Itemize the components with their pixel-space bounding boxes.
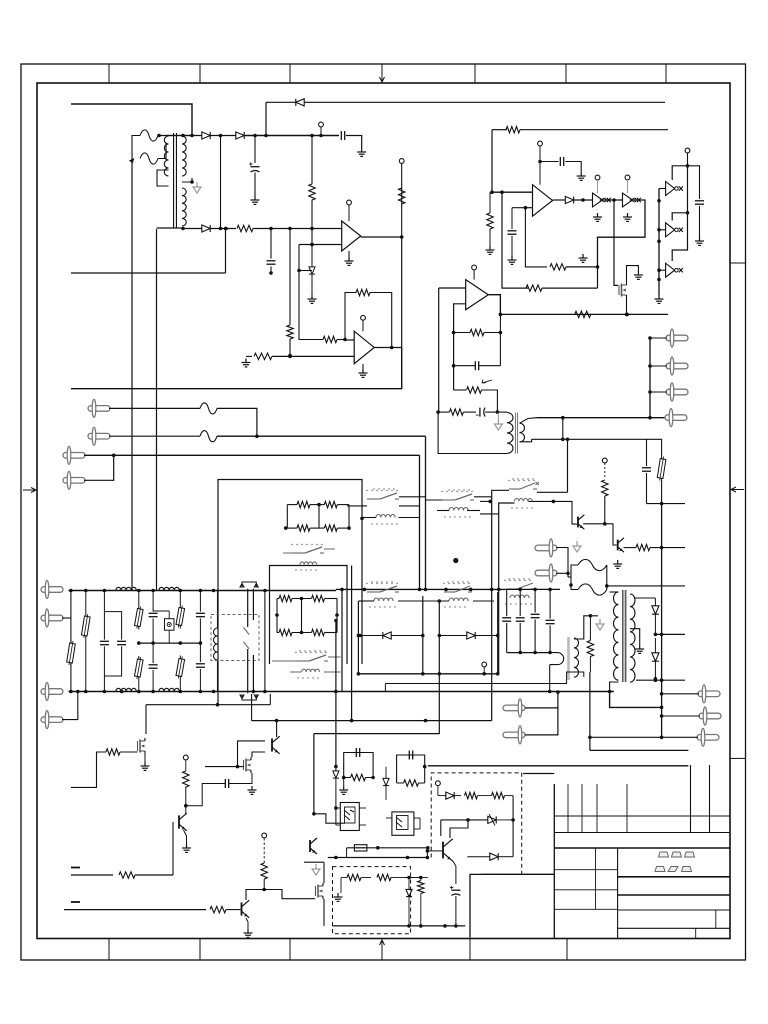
wire bus y228 left	[182, 228, 202, 230]
wire y129.7 loop	[491, 130, 493, 193]
ground N1	[597, 213, 599, 217]
node EMI top x153.1	[151, 589, 155, 593]
wire chain-fuse link	[567, 573, 569, 577]
frame center arrow top	[380, 70, 385, 82]
ground box1	[337, 893, 339, 897]
wire R6 to out	[370, 293, 392, 348]
ground driver bus	[658, 295, 660, 299]
wire Q2 emitter lead	[583, 523, 605, 525]
ground U2	[362, 364, 364, 369]
fuse box F7	[354, 845, 367, 851]
ground mid	[582, 254, 584, 258]
wire right conn bus x650	[649, 338, 651, 418]
title block vline small 1	[715, 910, 717, 928]
capacitor C5	[508, 230, 517, 232]
wire L4 leads	[499, 503, 515, 674]
wire x401 down to U2 out node	[401, 237, 403, 348]
terminal test point 1	[319, 122, 324, 127]
wire Q6 links	[186, 784, 202, 796]
zener D11	[333, 771, 339, 778]
wire x438 from y288	[438, 288, 440, 411]
title block row b	[554, 889, 617, 891]
switch SW7	[444, 591, 455, 593]
transformer T1 lower secondary bottom lead	[157, 227, 183, 229]
buffer T3	[666, 263, 675, 277]
relay contact arm 2	[243, 642, 249, 649]
wire EMI mid rail	[139, 642, 201, 644]
wire top bus B	[266, 101, 296, 103]
node EMI top x200.4	[199, 589, 203, 593]
capacitor C3	[267, 260, 276, 262]
wire R4 to node	[289, 339, 291, 356]
wire y314 long	[500, 313, 668, 315]
node EMI top x264.9	[263, 589, 267, 593]
transformer T1 primary winding	[164, 136, 168, 176]
node EMI bot x138.8	[137, 690, 141, 694]
resistor R6	[356, 289, 370, 295]
inductor L1	[300, 562, 317, 565]
title block hline thick 1	[618, 876, 730, 878]
wire y417 long	[536, 417, 665, 419]
buffer T1	[666, 182, 675, 196]
resistor R11	[526, 285, 542, 291]
wire Q11 emitter down	[453, 861, 456, 884]
frame tick top 4	[381, 64, 383, 83]
wire U4 out	[489, 295, 501, 315]
connector CN7	[535, 570, 557, 576]
relay contact arm 1	[243, 627, 249, 634]
wire input bus x659	[658, 189, 660, 296]
wire T1 top	[166, 135, 192, 137]
resistor R27	[106, 749, 120, 755]
node EMI top x180.3	[179, 589, 183, 593]
wire Q6 drain to Q5	[252, 752, 265, 757]
dot blob center	[453, 558, 458, 563]
resistor R36 vertical	[418, 881, 424, 894]
resistor network B R23	[312, 595, 325, 601]
wire Q10 drain up	[323, 862, 325, 883]
connector CN3	[666, 389, 688, 395]
wire Q11 base	[427, 850, 443, 852]
resistor network A R16	[297, 501, 310, 507]
chassis arrow T5	[599, 619, 601, 624]
diode D7	[383, 632, 391, 639]
resistor network A R18	[297, 525, 310, 531]
transformer T2 core	[515, 413, 517, 454]
fuse F4	[200, 431, 217, 442]
frame tick bottom 2	[199, 939, 201, 961]
frame tick top 3	[289, 64, 291, 83]
wire T5 primary down	[549, 665, 551, 692]
frame tick right upper	[730, 262, 746, 264]
wire x362-x364 stub	[362, 517, 364, 519]
capacitor C10	[100, 640, 109, 642]
wire driver supply bus	[672, 166, 687, 261]
wire Q3 base	[605, 524, 617, 545]
varistor RV4	[138, 656, 140, 659]
terminal tp5	[183, 755, 188, 760]
revision strip top	[554, 783, 730, 785]
revision strip verticals	[567, 784, 569, 833]
frame center arrow left	[23, 488, 36, 493]
node EMI bot x213.5	[212, 690, 216, 694]
inverter N2	[623, 193, 633, 207]
wire C6 down	[699, 206, 701, 237]
connector CN1	[666, 335, 688, 341]
wire R9 top	[489, 192, 491, 213]
wire sw2 col links	[347, 505, 367, 507]
wire Q4 leads	[145, 738, 147, 741]
ground R9	[489, 246, 491, 250]
wire y601 center	[358, 600, 374, 602]
wire D1 to D2	[210, 135, 236, 137]
wire R15 to cap	[463, 411, 476, 413]
wire opto2 leads	[386, 817, 392, 819]
wire R29 to Q7	[135, 874, 173, 876]
wire R20 down	[604, 496, 606, 524]
wire relay top link	[253, 590, 265, 592]
wire y436 corner down	[425, 436, 427, 589]
wire y503 stub	[662, 503, 685, 505]
wire sw4 left lead	[492, 490, 509, 720]
wire T5 bottom	[574, 672, 584, 677]
wire U3 out	[553, 199, 566, 201]
wire R7 to U2 in-	[272, 355, 354, 357]
capacitor C17	[516, 617, 525, 619]
inductor L5 top	[116, 587, 136, 590]
wire Q6 gate	[205, 766, 244, 768]
wire y129.7 right	[520, 129, 668, 131]
node EMI bot x180.3	[179, 690, 183, 694]
transistor Q11 npn big	[442, 842, 444, 859]
wire cap branch x271	[270, 229, 272, 259]
frame tick right lower	[730, 757, 746, 759]
wire long y388.7	[71, 348, 402, 389]
capacitor C8 electrolytic	[479, 408, 481, 417]
connector CN6	[535, 545, 557, 551]
wire y634 out	[655, 633, 685, 635]
frame tick bottom 3	[289, 939, 291, 961]
node EMI bot x121.6	[120, 690, 124, 694]
wire jog to y823	[314, 814, 345, 823]
wire box1 bottom rail	[333, 925, 466, 927]
capacitor C22	[408, 751, 410, 760]
title block col divider	[617, 848, 619, 939]
terminal tp2	[399, 159, 404, 164]
wire Q7 base	[173, 821, 179, 823]
wire y773 stub	[523, 773, 554, 775]
wire network B frame	[276, 599, 278, 633]
wire C1 to ground	[346, 136, 362, 149]
wire node to C2	[254, 136, 256, 164]
title block vline small 2	[695, 928, 697, 938]
ground D5	[311, 295, 313, 299]
wire Q2 base path	[553, 501, 577, 524]
buffer T2	[666, 223, 675, 237]
transformer T1 secondary upper	[182, 136, 186, 176]
frame center arrow bottom	[380, 940, 385, 954]
varistor RV3	[138, 606, 140, 609]
wire y875 input	[71, 874, 113, 876]
resistor R34	[347, 874, 361, 880]
frame tick bottom 4	[381, 939, 383, 961]
wire fuse F2 right lead	[158, 143, 166, 159]
wire y680 out	[636, 679, 685, 681]
wire R14 to node	[482, 390, 498, 412]
resistor network A R19	[324, 525, 337, 531]
capacitor C1 (filter)	[340, 131, 342, 140]
wire U4 in+ feed	[439, 287, 466, 289]
connector CN12	[503, 732, 525, 738]
transformer T2 secondary winding	[520, 423, 525, 442]
resistor R9 vertical	[487, 213, 493, 229]
connector CN8	[698, 691, 720, 697]
chassis arrow T1 tap	[196, 182, 198, 187]
node EMI bot x70.9	[69, 690, 73, 694]
wire D4 to R2	[210, 228, 236, 230]
frame tick top 2	[199, 64, 201, 83]
capacitor C7 fb	[474, 361, 476, 370]
resistor R5	[323, 336, 337, 342]
relay contact bar left	[247, 589, 249, 627]
wire T2 input	[659, 229, 666, 231]
wire box1 top link	[404, 877, 421, 879]
wire x661 down	[661, 504, 663, 738]
inverter N1	[593, 193, 603, 207]
node EMI bot x253.4	[252, 690, 256, 694]
ground Q7 emitter	[186, 844, 188, 848]
resistor R7	[254, 353, 272, 359]
wire J2 lead	[109, 435, 200, 437]
wire U2 fb loop	[345, 293, 356, 341]
connector J7	[41, 689, 63, 695]
terminal N1 vcc	[595, 175, 600, 180]
wire U2 in+ (y340)	[345, 339, 354, 341]
snubber box 1	[344, 753, 373, 778]
ground Q3	[617, 560, 619, 564]
diode D6	[565, 196, 573, 203]
wire C20 to Q6 source	[240, 773, 252, 784]
node fuse F1 right	[157, 134, 161, 138]
wire tp1 stem	[320, 127, 322, 136]
wire tp3 dash	[604, 463, 606, 479]
capacitor C16	[502, 617, 511, 619]
label minus 1	[71, 867, 80, 869]
connector J1	[88, 406, 110, 412]
resistor R30	[210, 906, 226, 912]
logo marks row 1	[659, 852, 695, 857]
wire relay to y720	[251, 694, 253, 721]
transformer T1 secondary lower	[182, 188, 186, 226]
wire node to Q9 gate	[264, 890, 315, 899]
wire y439.3	[532, 438, 647, 440]
wire J4 lead	[84, 455, 114, 480]
terminal tp4	[482, 662, 487, 667]
frame center arrow right	[731, 487, 744, 492]
frame tick top 7	[665, 64, 667, 83]
wire Q11 collector	[450, 820, 468, 838]
wire x346 stub	[346, 848, 348, 858]
resistor R29	[119, 872, 135, 878]
wire opto1 out	[365, 792, 367, 808]
resistor R1 vertical	[309, 184, 315, 200]
wire F6 to T3	[607, 585, 685, 587]
chassis arrow T2	[497, 412, 499, 419]
diode D10	[652, 653, 659, 661]
terminal U4 vcc	[472, 265, 477, 270]
wire R5 to U2b node	[337, 339, 345, 341]
wire box2 right rail	[512, 796, 514, 857]
wire C2 to ground	[254, 173, 256, 197]
resistor R26 vertical	[587, 641, 593, 657]
relay coil	[214, 628, 218, 660]
terminal U1 vcc	[347, 200, 352, 205]
wire diode join vertical x220	[220, 136, 222, 229]
transformer T5 primary loop	[550, 653, 564, 665]
capacitor C9	[642, 467, 651, 469]
capacitor C12	[149, 612, 158, 614]
title block hline 4	[618, 927, 730, 929]
mosfet Q4	[137, 741, 139, 751]
capacitor C14	[196, 612, 205, 614]
wire U3 vcc to triangle	[539, 162, 541, 185]
ground Q1 drain	[637, 271, 639, 275]
node EMI top x138.8	[137, 589, 141, 593]
resistor R15	[449, 409, 463, 415]
wire cap bank top ext	[507, 588, 560, 590]
wire F3 to corner	[217, 408, 257, 436]
resistor network B R25	[312, 629, 325, 635]
transformer T4 primary	[614, 592, 619, 680]
terminal tp6	[262, 833, 267, 838]
wire T4 top leads	[610, 591, 619, 593]
wire relay right vertical	[264, 591, 266, 692]
diode D1	[202, 132, 210, 139]
capacitor C20	[224, 779, 226, 788]
node y266.9	[596, 265, 600, 269]
resistor R14 trim	[467, 387, 482, 393]
wire T1 secondary top lead	[182, 135, 202, 137]
wire Q7 collector	[185, 806, 187, 814]
relay actuator top	[240, 582, 258, 587]
node U1 in+ junctions	[310, 227, 314, 231]
connector J2	[88, 433, 110, 439]
wire Q5 base	[238, 741, 266, 767]
resistor R20 vertical	[602, 480, 608, 496]
resistor R21	[636, 544, 650, 550]
wire tp6 chain	[263, 838, 265, 863]
wire vertical x342	[341, 589, 343, 691]
trim arrow	[482, 380, 492, 384]
wire T2 sec top lead	[520, 418, 537, 424]
resistor R32	[351, 774, 366, 780]
wire F4 right	[217, 435, 426, 437]
transformer T4 secondary	[630, 594, 635, 682]
logo marks row 2	[655, 867, 692, 872]
wire y737.3	[590, 736, 698, 738]
wire Q9 base	[301, 845, 310, 847]
transformer T5 core	[567, 637, 570, 680]
wire tp5 chain	[185, 760, 187, 771]
wire x562 link	[562, 418, 564, 440]
inductor L10	[374, 598, 393, 601]
wire netA to box	[349, 515, 362, 517]
ground snubber1	[343, 786, 345, 790]
opto-coupler U6	[392, 812, 414, 835]
wire trimmer	[454, 389, 466, 391]
connector J3	[63, 453, 85, 459]
terminal tp3	[602, 458, 607, 463]
wire sw4 star	[536, 482, 540, 485]
transistor Q5 npn	[271, 738, 273, 751]
resistor R38	[492, 792, 505, 798]
switch SW6	[367, 591, 380, 593]
mosfet Q6	[243, 760, 245, 770]
transformer T4 core	[622, 590, 624, 682]
transistor Q9 npn	[309, 840, 311, 852]
wire T3 input	[659, 269, 666, 271]
ground C6	[699, 237, 701, 241]
wire vertical x156 (mains N)	[156, 229, 158, 591]
wire sw3 links	[426, 499, 443, 501]
ground N2	[627, 213, 629, 217]
wire T2 sec bottom lead	[520, 439, 532, 442]
capacitor C18	[531, 613, 540, 615]
arrow on x132	[129, 158, 135, 164]
wire U2 out	[375, 347, 402, 349]
wire y910 input	[64, 909, 206, 911]
wire T1 tap left	[157, 170, 169, 186]
wire y847.8	[347, 847, 428, 849]
transistor Q2 npn	[577, 517, 579, 528]
capacitor C6 branch	[688, 166, 700, 199]
wire y705 rail	[146, 704, 270, 706]
dashed box regulator A	[333, 867, 411, 934]
wire U4 in- vertical	[454, 304, 466, 390]
capacitor C21	[355, 748, 357, 757]
resistor network A R17	[324, 501, 337, 507]
wire y857.5	[328, 857, 428, 859]
wire U3 in+ y192	[492, 191, 533, 193]
wire x567 down	[567, 439, 569, 492]
wire network A frame	[286, 505, 288, 528]
wire y749 long	[590, 749, 689, 751]
wire R2 to bus	[253, 228, 342, 230]
wire y733.6 link	[314, 733, 440, 735]
wire opto1 leads	[336, 807, 340, 809]
wire left feeds	[480, 500, 492, 502]
node EMI bot x153.1	[151, 690, 155, 694]
wire SW1 leads	[283, 552, 292, 554]
wire Q8 collector	[246, 890, 264, 901]
resistor R4 vertical	[287, 325, 293, 339]
connector CN10	[697, 735, 719, 741]
wire x146 up	[145, 705, 147, 734]
wire R1 down	[311, 200, 313, 245]
resistor R10	[550, 264, 566, 270]
box diode cell 1	[357, 601, 359, 674]
wire main bus y135	[244, 135, 339, 137]
dashed box regulator B	[431, 773, 522, 875]
wire R27 to Q4 gate	[120, 751, 138, 753]
wire x313.9 vertical	[313, 734, 315, 814]
frame tick bottom 1	[108, 939, 110, 961]
transistor Q7 npn	[178, 815, 180, 828]
node EMI top x104.4	[103, 589, 107, 593]
wire R30 to Q8	[226, 909, 241, 911]
capacitor C4	[559, 157, 561, 166]
transistor Q3 npn	[617, 540, 619, 551]
